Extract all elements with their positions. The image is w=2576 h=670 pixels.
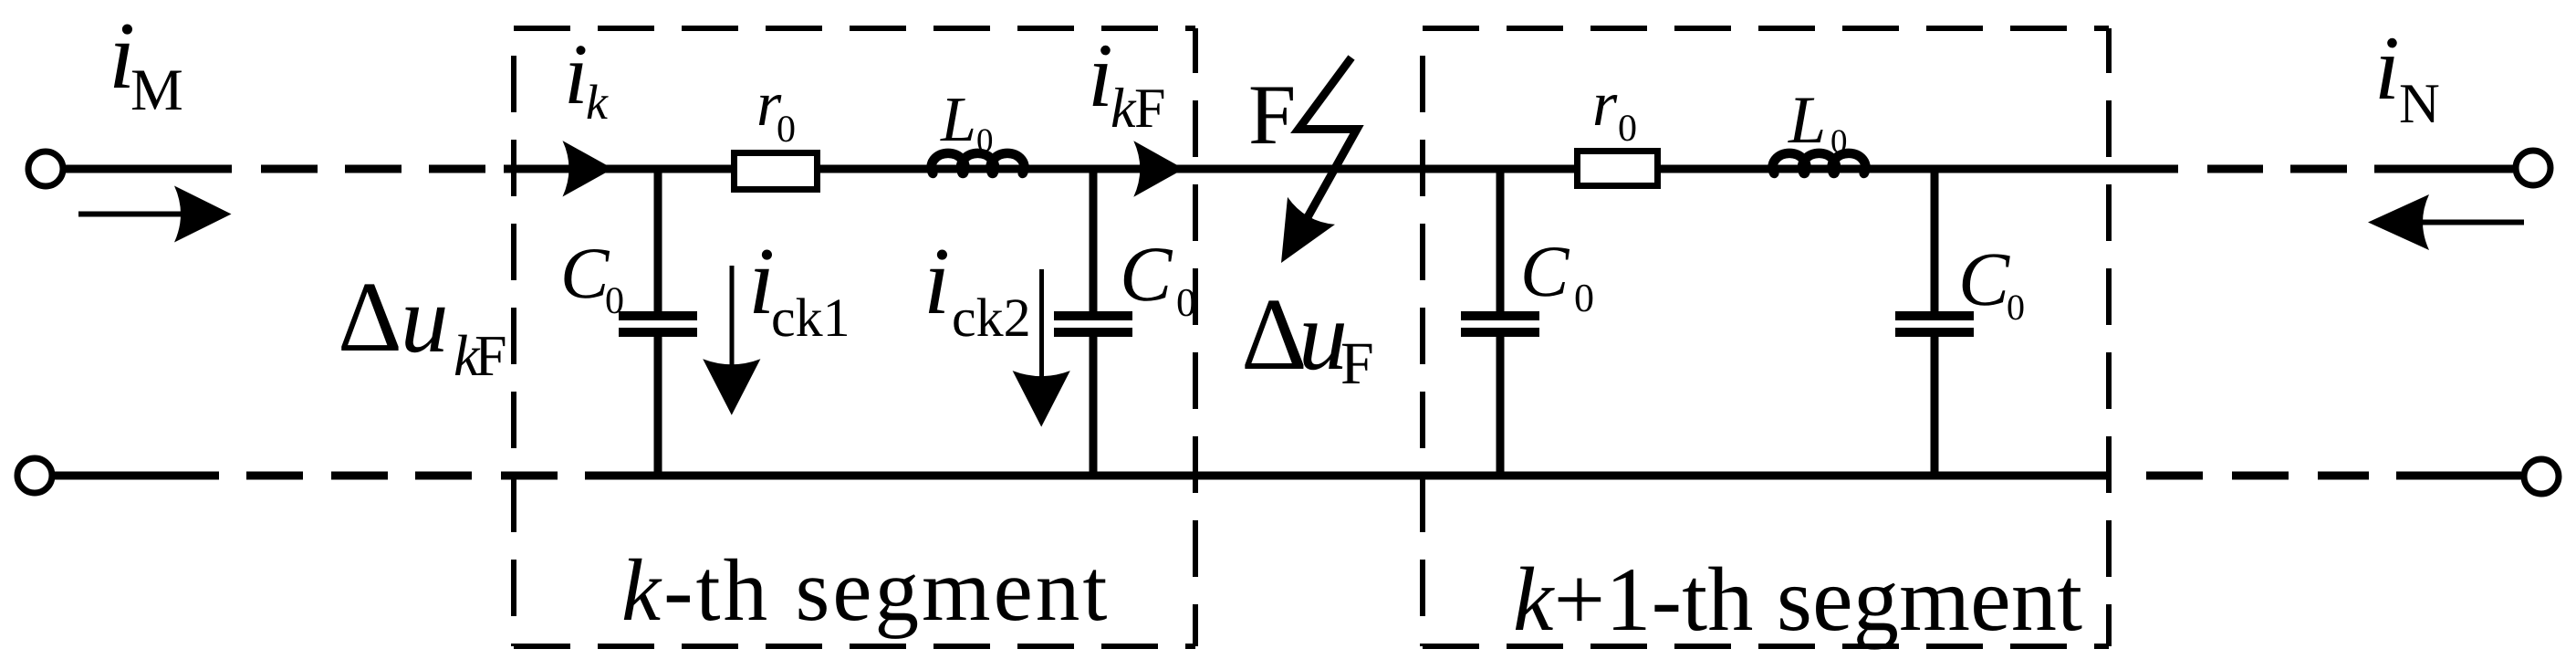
capacitor C0 branch (k left) (654, 169, 662, 311)
wire top-left solid (66, 165, 232, 173)
terminal N top (2516, 151, 2550, 185)
arrowhead i_kF on top wire (1133, 141, 1184, 196)
inductor L0 (k segment) (931, 153, 1024, 173)
label C0 (k right) (1124, 248, 1195, 316)
wire top-right dashed (2207, 165, 2347, 173)
label i_k (568, 46, 608, 119)
wire top-right solid (2374, 165, 2513, 173)
label i_kF (1093, 46, 1164, 127)
inductor L0 (k+1 segment) (1773, 153, 1866, 173)
label C0 (k left) (564, 249, 622, 313)
current arrow i_N (2383, 220, 2524, 225)
label r0 (k+1) (1595, 95, 1636, 141)
label i_ck1 (754, 249, 847, 336)
dashed box k+1-th segment (1423, 28, 2109, 646)
current arrow i_ck2 (1039, 269, 1044, 393)
label i_ck2 (929, 249, 1027, 336)
label i_M (114, 24, 182, 110)
label i_N (2380, 38, 2439, 122)
label k+1-th segment (1516, 567, 2082, 650)
terminal M bottom (17, 458, 52, 493)
arrowhead i_k on top wire (563, 141, 613, 196)
current arrow i_M (78, 212, 219, 217)
dashed box k-th segment (514, 28, 1195, 646)
label C0 (k+1 left) (1524, 247, 1592, 311)
wire bottom-left dashed (246, 472, 558, 480)
resistor r0 (k+1 segment) (1578, 152, 1658, 186)
label r0 (k) (759, 95, 795, 141)
label delta-u_kF (341, 284, 505, 375)
label C0 (k+1 right) (1963, 254, 2024, 319)
terminal M top (28, 152, 63, 186)
wire top-left dashed (261, 165, 485, 173)
capacitor C0 branch (k right) (1090, 169, 1098, 311)
current arrow i_ck1 (730, 266, 735, 382)
wire bottom-right solid (2396, 472, 2521, 480)
wire bottom-left solid (55, 472, 219, 480)
resistor r0 (k segment) (735, 153, 818, 190)
capacitor C0 branch (k+1 right) (1931, 169, 1939, 311)
terminal N bottom (2524, 459, 2559, 494)
capacitor C0 branch (k+1 left) (1497, 169, 1505, 311)
wire bottom-right dashed (2146, 472, 2369, 480)
label delta-u_F (1245, 300, 1371, 383)
fault lightning bolt (1298, 58, 1357, 217)
label L0 (k) (940, 99, 992, 152)
wire top main solid (504, 165, 2178, 173)
label F fault (1251, 87, 1293, 143)
label L0 (k+1) (1788, 99, 1846, 153)
wire bottom main solid (585, 472, 2112, 480)
label k-th segment (624, 559, 1107, 639)
